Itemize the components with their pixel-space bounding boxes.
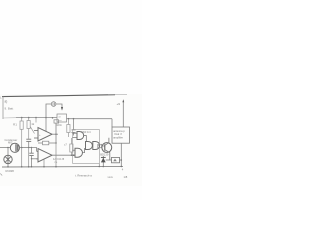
wire R2 branch to rail bbox=[28, 148, 30, 167]
wire opamp drop bbox=[43, 160, 45, 167]
ground rail (bottom) bbox=[2, 165, 123, 168]
switch S1 bbox=[51, 102, 56, 107]
resistor R4 (feedback) bbox=[38, 141, 56, 145]
node supply-C2 bbox=[73, 118, 75, 120]
svg-text:1/8: 1/8 bbox=[124, 175, 128, 179]
svg-text:a): a) bbox=[5, 100, 8, 104]
svg-text:xxxx: xxxx bbox=[108, 176, 114, 179]
wire corner into PA box bbox=[111, 119, 113, 127]
node arrow into oscillator box bbox=[61, 107, 63, 111]
resistor R1 bbox=[20, 118, 23, 148]
svg-text:+9: +9 bbox=[117, 102, 121, 106]
svg-text:c7: c7 bbox=[64, 143, 67, 147]
svg-text:t. Research-a: t. Research-a bbox=[75, 174, 92, 178]
svg-text:antenna p: antenna p bbox=[113, 129, 125, 133]
horizontal scan fold line across page top of figure bbox=[2, 95, 115, 97]
stray page mark bottom-left bbox=[0, 174, 2, 176]
svg-text:RC###: RC### bbox=[6, 169, 15, 173]
svg-text:+: + bbox=[39, 133, 41, 137]
svg-text:9. Batt: 9. Batt bbox=[5, 107, 14, 111]
wire feedback vertical bbox=[55, 123, 57, 143]
svg-text:MIC: MIC bbox=[8, 140, 13, 144]
wire IC box drop bbox=[98, 163, 100, 167]
wire left vertical bbox=[2, 97, 4, 120]
capacitor C1 on R2 branch bbox=[26, 139, 31, 141]
node rail-R2 bbox=[28, 117, 30, 119]
wire U1a power stub bbox=[45, 118, 47, 132]
resistor R2 (with pot arrow) bbox=[27, 118, 35, 139]
svg-text:BD139: BD139 bbox=[100, 152, 109, 156]
wire mic line to U1b input bbox=[33, 148, 37, 152]
node rail-R1 bbox=[21, 117, 23, 119]
node rail-46 bbox=[45, 117, 47, 119]
gate G4 bbox=[93, 142, 100, 150]
crystal X1 bbox=[106, 159, 112, 161]
wire mic output bbox=[20, 147, 33, 149]
wire B1 to rail bbox=[7, 164, 9, 167]
transistor Q1 BD139 bbox=[102, 143, 112, 153]
capacitor C3 (to ground) bbox=[29, 148, 33, 167]
wire U1b lower input stub bbox=[32, 158, 39, 160]
wire U1b output to gate IC bbox=[52, 154, 75, 156]
node stub join bbox=[31, 158, 32, 159]
op-amp U1b bbox=[36, 149, 52, 163]
resistor R5 bbox=[67, 119, 70, 137]
page background bbox=[0, 0, 142, 200]
svg-text:100n: 100n bbox=[56, 123, 62, 127]
resistor R3 (top feedback) bbox=[54, 120, 59, 123]
wire R1 branch to rail bbox=[21, 148, 23, 167]
resistor R8 (base) bbox=[98, 144, 102, 147]
resistor R7 bbox=[70, 138, 73, 155]
node out-R7 bbox=[71, 154, 73, 156]
wire Q1 collector bbox=[105, 138, 109, 146]
wire fb line to rail bbox=[55, 143, 57, 167]
wire +V top rail bbox=[16, 117, 57, 119]
svg-text:amplifier: amplifier bbox=[113, 136, 123, 140]
node X1-drop bbox=[121, 159, 123, 161]
node bias cap tap bbox=[31, 147, 33, 149]
wire PA box to rail bbox=[120, 143, 122, 167]
oscillator box U2 bbox=[57, 114, 67, 122]
wire supply line to PA box bbox=[67, 118, 113, 120]
diode D1 (zener) bbox=[102, 156, 104, 167]
+9V supply arrow bbox=[122, 102, 124, 128]
svg-text:final rf: final rf bbox=[115, 132, 122, 136]
wire Q1 emitter bbox=[105, 150, 110, 160]
node U1a out bbox=[55, 133, 57, 135]
node supply-R5 bbox=[68, 118, 70, 120]
gate IC box IC1 bbox=[73, 130, 100, 164]
condenser microphone MIC1 bbox=[0, 147, 10, 149]
node rail-52 bbox=[52, 117, 54, 119]
wire G4 output bbox=[98, 145, 100, 147]
PA (final amplifier) box U4 bbox=[112, 127, 130, 143]
node rail-36 bbox=[35, 117, 37, 119]
wire branch to oscillator via switch bbox=[46, 104, 51, 118]
wire switch to box bbox=[56, 104, 62, 107]
gate G3 bbox=[86, 142, 93, 150]
op-amp U1a bbox=[34, 128, 52, 142]
capacitor C2 bbox=[71, 119, 75, 136]
wire U1a output bbox=[52, 133, 58, 135]
wire stub down from rail-36 bbox=[35, 118, 37, 123]
gate G2 bbox=[73, 148, 85, 157]
earphone/lamp B1 (circle with X) bbox=[7, 148, 9, 156]
node mic-R1 bbox=[21, 147, 23, 149]
gate G1 bbox=[73, 132, 87, 142]
node mic-R2 bbox=[28, 147, 30, 149]
svg-text:R1: R1 bbox=[13, 123, 17, 127]
node rail joints bbox=[7, 166, 122, 168]
node arrow into IC1 bbox=[73, 154, 76, 156]
node mic branch bbox=[7, 147, 9, 149]
node fb bbox=[55, 142, 57, 144]
